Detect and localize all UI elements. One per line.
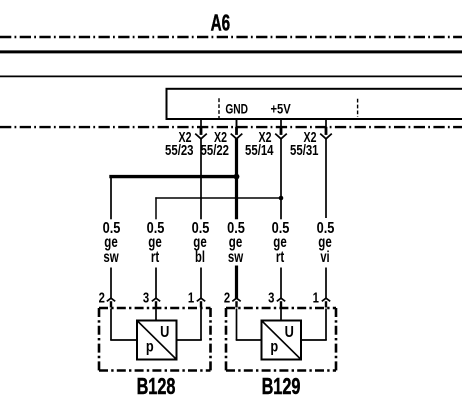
svg-text:+5V: +5V (270, 100, 291, 117)
svg-text:3: 3 (143, 289, 149, 306)
svg-text:U: U (160, 324, 169, 342)
svg-text:55/23: 55/23 (165, 142, 193, 159)
svg-text:3: 3 (268, 289, 274, 306)
svg-text:2: 2 (224, 289, 230, 306)
svg-text:GND: GND (225, 101, 248, 117)
svg-text:1: 1 (313, 289, 319, 306)
svg-text:p: p (270, 338, 278, 356)
svg-text:vi: vi (320, 247, 329, 266)
svg-text:bl: bl (195, 247, 205, 266)
svg-text:A6: A6 (211, 10, 231, 36)
svg-text:p: p (146, 338, 154, 356)
svg-text:B128: B128 (137, 374, 176, 400)
svg-text:1: 1 (188, 289, 194, 306)
svg-text:U: U (285, 324, 294, 342)
svg-text:sw: sw (228, 247, 243, 265)
svg-text:55/14: 55/14 (245, 142, 274, 159)
svg-text:rt: rt (151, 247, 160, 265)
svg-text:55/22: 55/22 (201, 142, 229, 159)
svg-text:55/31: 55/31 (290, 142, 318, 159)
svg-text:B129: B129 (262, 374, 301, 400)
svg-text:rt: rt (276, 247, 285, 265)
svg-text:sw: sw (103, 247, 118, 265)
svg-text:2: 2 (99, 289, 105, 306)
